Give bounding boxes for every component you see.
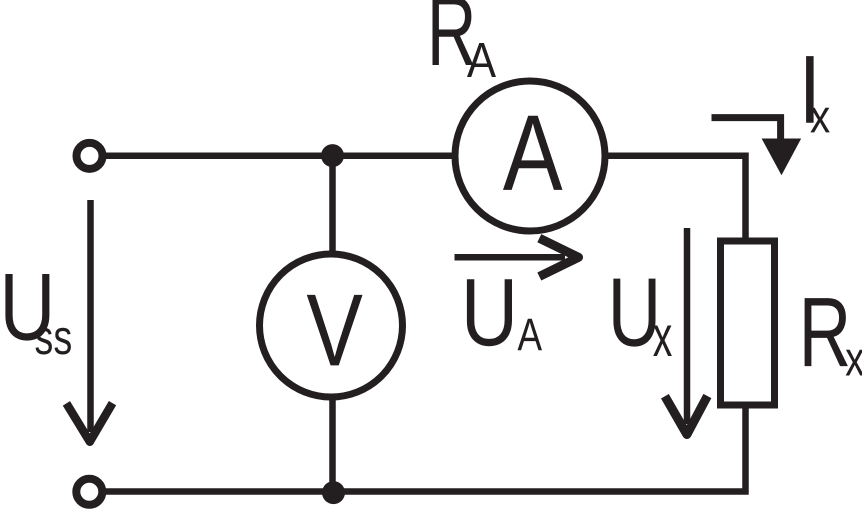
- terminal bottom-left: [76, 479, 102, 505]
- ammeter letter A: [503, 116, 562, 190]
- label Uss: [5, 274, 49, 341]
- ammeter A circle: [455, 81, 605, 231]
- label Ux: [613, 279, 655, 347]
- resistor Rx body: [721, 241, 775, 405]
- arrow Ix (right, then down into Rx branch): [712, 118, 781, 139]
- label RA: [432, 0, 473, 65]
- label UA: [467, 279, 512, 346]
- arrow UA (right): [455, 254, 566, 261]
- arrow Uss (down): [87, 200, 94, 432]
- node: junction top: [321, 144, 344, 167]
- wire: top rail, right branch and bottom rail: [104, 156, 746, 492]
- node: junction bottom: [322, 481, 345, 504]
- wire: voltmeter branch: [329, 156, 336, 492]
- label Ix: [806, 56, 814, 123]
- terminal top-left: [77, 143, 103, 169]
- voltmeter letter V: [307, 295, 363, 366]
- voltmeter V circle: [260, 254, 403, 397]
- label Rx: [805, 298, 848, 366]
- arrow Ux (down): [684, 228, 691, 424]
